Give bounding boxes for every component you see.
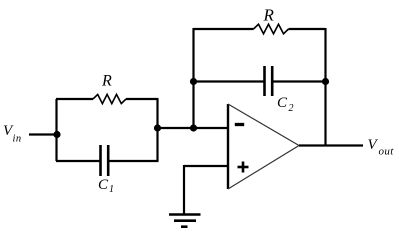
op-amp U1: [228, 104, 299, 189]
svg-text:in: in: [13, 134, 22, 145]
op-amp inverting input marker (minus): [235, 123, 244, 126]
wire feedback tap riser: [192, 28, 194, 128]
wire input Vin to node A: [29, 133, 57, 135]
wire C2 row right lead: [272, 80, 325, 82]
svg-text:out: out: [379, 146, 395, 158]
wire feedback right side down to output: [324, 28, 326, 146]
node C (feedback tap junction dot): [190, 124, 197, 131]
svg-text:1: 1: [109, 184, 114, 195]
wire top branch right lead: [126, 98, 159, 100]
wire non-inverting input: [184, 165, 228, 167]
node E (C2 right junction dot): [322, 78, 329, 85]
svg-text:2: 2: [289, 103, 294, 114]
resistor R1 (input, zigzag): [93, 94, 126, 103]
wire node B to op-amp inverting input: [158, 127, 229, 129]
svg-text:V: V: [368, 137, 379, 153]
capacitor C1: [101, 145, 109, 176]
node B (network output junction dot): [154, 124, 161, 131]
svg-text:C: C: [277, 95, 288, 111]
label C2: [277, 95, 294, 114]
wire top branch left lead: [56, 98, 93, 100]
svg-text:R: R: [101, 73, 112, 90]
wire feedback top left segment: [194, 28, 254, 30]
capacitor C2: [265, 66, 273, 96]
wire output: [299, 144, 363, 146]
svg-text:R: R: [263, 6, 275, 25]
wire left side of R/C1 parallel network: [55, 99, 57, 161]
label Vin: [3, 123, 21, 145]
wire bottom branch left lead: [56, 160, 101, 162]
node A (input junction dot): [53, 131, 60, 138]
resistor R2 (feedback, zigzag): [254, 24, 289, 34]
wire bottom branch right lead: [108, 160, 158, 162]
wire C2 row left lead: [194, 80, 265, 82]
ground: [169, 215, 201, 227]
wire ground riser: [183, 165, 185, 214]
wire feedback top right segment: [289, 28, 326, 30]
svg-text:C: C: [98, 177, 109, 193]
op-amp non-inverting input marker (plus): [238, 162, 249, 173]
label Vout: [368, 137, 395, 158]
label C1: [98, 177, 114, 195]
node D (C2 left junction dot): [190, 78, 197, 85]
wire right side of R/C1 parallel network: [156, 99, 158, 161]
